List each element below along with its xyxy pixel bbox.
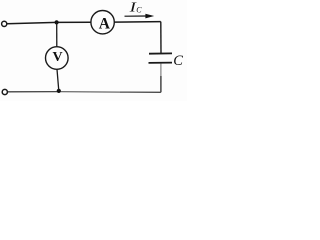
wire right vertical (corner to capacitor top) [160, 22, 162, 54]
wire bottom [7, 91, 161, 94]
label Ic [128, 0, 142, 15]
svg-text:C: C [173, 53, 183, 69]
ammeter A [91, 11, 114, 34]
wire voltmeter bottom lead [57, 69, 59, 91]
svg-text:C: C [136, 6, 142, 15]
terminal T2 (bottom left) [2, 89, 7, 94]
svg-text:A: A [99, 16, 111, 33]
node top junction [55, 20, 59, 24]
svg-text:V: V [53, 50, 63, 65]
capacitor C [149, 53, 173, 63]
node bottom junction [57, 89, 61, 93]
wire terminal T1 to top junction [7, 22, 57, 23]
voltmeter V [46, 47, 69, 70]
wire right vertical (capacitor bottom to corner) [160, 64, 162, 93]
wire top junction to ammeter [57, 21, 91, 23]
wire ammeter to top-right corner [114, 21, 161, 24]
current arrow Ic [125, 14, 155, 19]
wire voltmeter top lead [56, 22, 58, 46]
terminal T1 (top left) [2, 21, 7, 26]
